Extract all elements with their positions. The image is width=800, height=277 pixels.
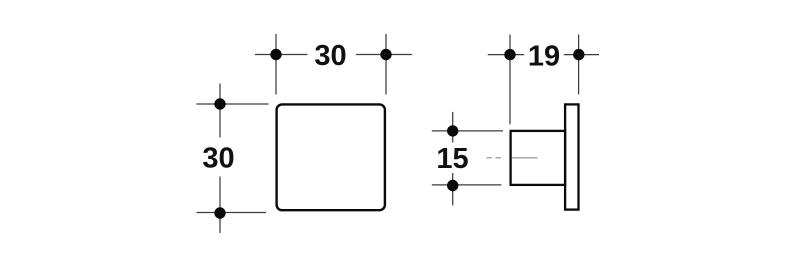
dimension 30 (left height): top terminator dot	[214, 98, 225, 109]
dimension 19 (depth): left terminator dot	[504, 49, 515, 60]
dimension 19 (depth): right terminator dot	[573, 49, 584, 60]
dimension 30 (top width): left terminator dot	[270, 49, 281, 60]
side view: centerline solid segment inside stem	[512, 157, 538, 159]
svg-text:15: 15	[436, 143, 468, 175]
dimension 30 (top width): dimension line left segment	[255, 54, 308, 56]
dimension 19 (depth): dimension line right segment	[564, 54, 599, 56]
dimension 15 (stem height): dimension line upper segment	[452, 112, 454, 143]
dimension 30 (top width): right terminator dot	[380, 49, 391, 60]
dimension 30 (left height): bottom extension line	[197, 212, 267, 214]
svg-text:30: 30	[202, 143, 234, 175]
dimension 15 (stem height): top extension line	[432, 130, 503, 132]
dimension 30 (left height): dimension line lower segment	[219, 177, 221, 234]
side view: knob stem outline	[511, 131, 565, 185]
svg-text:30: 30	[314, 40, 346, 72]
dimension 30 (left height): top extension line	[197, 103, 269, 105]
dimension 30 (left height): dimension line upper segment	[219, 84, 221, 138]
svg-text:19: 19	[528, 40, 560, 72]
dimension 15 (stem height): bottom extension line	[432, 184, 502, 186]
dimension 30 (top width): dimension line right segment	[356, 54, 412, 56]
dimension 30 (top width): right extension line	[385, 34, 387, 95]
dimension 15 (stem height): top terminator dot	[447, 125, 458, 136]
front view: square knob outline	[277, 104, 385, 210]
dimension 19 (depth): left extension line	[509, 35, 511, 125]
dimension 30 (top width): left extension line	[275, 34, 277, 95]
dimension 15 (stem height): dimension line lower segment	[452, 173, 454, 205]
dimension 15 (stem height): bottom terminator dot	[447, 180, 458, 191]
dimension 30 (left height): bottom terminator dot	[214, 207, 225, 218]
side view: flange plate outline	[565, 104, 578, 209]
dimension 19 (depth): dimension line left segment	[488, 54, 524, 56]
dimension 19 (depth): right extension line	[578, 35, 580, 95]
side view: centerline dashes	[487, 157, 505, 159]
